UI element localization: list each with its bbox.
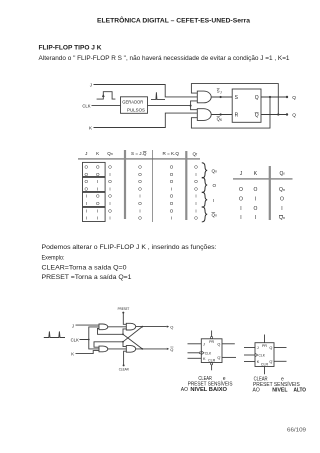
U3 pin CLR [208,358,216,370]
svg-text:I: I [240,206,241,212]
table T2 value cells [239,187,285,221]
pulse generator box U1 [121,97,148,114]
U3 pin J [188,343,206,347]
svg-text:Qn: Qn [279,187,285,193]
svg-text:Q: Q [217,343,220,347]
svg-text:Q: Q [255,113,259,119]
svg-text:I: I [213,198,214,203]
svg-text:Qf: Qf [280,171,285,177]
terminal Qbar [286,113,297,119]
svg-text:O: O [239,197,243,203]
svg-text:PRESET =Torna a saída Q=1: PRESET =Torna a saída Q=1 [42,274,133,281]
wire Q2 output [136,326,167,328]
svg-text:J: J [257,346,259,350]
svg-text:CLK: CLK [71,337,79,342]
svg-text:I: I [281,206,282,212]
wire feedback Q to G2 [191,97,270,128]
U3 pin PR [209,331,214,345]
junction rail Q [122,341,124,343]
svg-text:PR: PR [262,344,267,348]
svg-text:K: K [89,125,92,130]
svg-text:CLEAR=Torna a saída Q=0: CLEAR=Torna a saída Q=0 [42,265,128,272]
table T1 thick separator 1 [124,150,126,219]
svg-text:O: O [194,186,198,191]
svg-text:I: I [97,208,98,213]
table T1 JK group boxes [83,162,106,221]
svg-text:AONIVEL BAIXO: AONIVEL BAIXO [181,387,227,393]
svg-text:O: O [96,201,100,206]
svg-text:I: I [240,215,241,221]
flip-flop box U2 (RS latch) [232,89,261,122]
svg-text:CLK: CLK [82,103,90,108]
svg-text:O: O [138,186,142,191]
svg-text:Q: Q [292,113,296,119]
U4 pin Qbar [269,360,286,364]
wire feedback Qbar to G1 [191,84,278,115]
wire cross Qbar to upper rail [123,334,142,349]
nand-gate G5 (Q) [126,323,135,330]
paragraph block [42,244,217,281]
svg-text:Q: Q [292,95,296,101]
table T1 thin separator [152,150,154,222]
svg-text:J: J [72,323,74,328]
svg-text:O: O [239,187,243,193]
svg-text:O: O [170,172,174,177]
svg-text:O: O [253,206,257,212]
svg-text:O: O [108,165,112,170]
svg-text:CLR: CLR [208,358,216,362]
svg-text:J: J [220,90,222,94]
svg-text:I: I [195,194,196,199]
wire K2 [76,351,100,354]
svg-text:O: O [213,183,217,188]
wire G3 to G5 [108,326,127,328]
svg-text:Qn: Qn [212,169,218,174]
junction Q feedback tap [269,96,271,98]
table T1 header underline [78,158,200,160]
wire Q output [261,96,287,98]
svg-text:FLIP-FLOP TIPO J K: FLIP-FLOP TIPO J K [39,45,102,52]
svg-text:O: O [85,165,89,170]
svg-text:O: O [170,165,174,170]
svg-text:O: O [138,172,142,177]
svg-text:I: I [109,216,110,221]
svg-text:K: K [254,171,258,177]
nand-gate G6 (Qbar) [126,346,135,353]
svg-text:ELETRÔNICA DIGITAL – CEFET-E: ELETRÔNICA DIGITAL – CEFET-ES-UNED-Serra [97,17,251,25]
U4 pin CLR [261,362,269,374]
svg-text:Q: Q [269,360,272,364]
wire CLK to pulse generator [92,104,121,106]
svg-text:Q: Q [170,347,173,352]
svg-text:I: I [109,172,110,177]
svg-text:CLEAR: CLEAR [119,367,129,371]
svg-text:Qf: Qf [193,152,198,157]
svg-text:I: I [86,216,87,221]
svg-text:O: O [96,194,100,199]
svg-text:I: I [255,215,256,221]
svg-text:Podemos alterar o FLIP-FLOP J: Podemos alterar o FLIP-FLOP J K , inseri… [42,244,217,251]
junction CLK [190,105,192,107]
node CLEAR [119,364,129,371]
junction CLK2 [88,339,90,341]
U4 pin CLK [244,353,266,358]
svg-text:Qn: Qn [107,151,113,156]
svg-text:Q: Q [170,325,173,330]
svg-text:S = J.Q: S = J.Q [131,151,147,156]
svg-text:O: O [138,165,142,170]
wire rail Qbar feedback [98,329,127,335]
wire CLEAR [124,351,127,365]
svg-text:I: I [171,216,172,221]
svg-text:O: O [194,165,198,170]
svg-text:I: I [109,201,110,206]
wire PRESET [123,313,126,325]
svg-text:K: K [71,352,74,357]
wire Q2bar output [136,348,167,350]
svg-text:I: I [195,201,196,206]
svg-text:O: O [170,208,174,213]
svg-text:CLR: CLR [261,362,269,366]
node PRESET [118,307,130,313]
svg-text:Q: Q [255,95,259,101]
terminal Q [286,95,297,101]
svg-text:CLK: CLK [205,351,212,355]
wire G4 to G6 [108,348,127,350]
svg-text:O: O [253,187,257,193]
U4 pin Q [269,346,286,350]
svg-text:K: K [96,151,100,156]
svg-text:O: O [85,172,89,177]
svg-text:I: I [97,186,98,191]
svg-text:O: O [138,216,142,221]
U3 caption [181,376,233,393]
svg-text:O: O [280,197,284,203]
svg-text:O: O [170,179,174,184]
wire J2 [76,324,100,326]
svg-text:AONIVELALTO: AONIVELALTO [253,388,307,394]
U3 pin K [188,357,207,361]
svg-text:O: O [96,165,100,170]
U4 caption [253,376,307,393]
svg-text:O: O [108,179,112,184]
terminal Q2bar [167,347,174,352]
wire CLK to gates [148,101,198,110]
svg-text:I: I [171,186,172,191]
wide pulse waveform symbol [97,92,116,99]
svg-text:K: K [220,118,223,122]
svg-text:I: I [139,208,140,213]
svg-text:J: J [240,171,243,177]
wire J input [94,85,198,97]
svg-text:O: O [138,179,142,184]
narrow spike waveform symbol [151,92,165,99]
wire R [211,114,232,116]
and-gate G4 (K.ck.Q) [99,346,108,352]
junction S with label SJ [217,89,222,99]
svg-text:R: R [235,113,239,119]
junction R with label QK [217,113,223,122]
table T2 header row [240,171,285,177]
junction Qbar feedback tap [277,113,279,115]
svg-text:GERADOR: GERADOR [122,100,143,105]
U3 pin Q [217,343,234,347]
table T1 brace labels [212,169,218,218]
and-gate G2 (R = K.Qn.ck) [197,109,211,121]
svg-text:J: J [85,151,87,156]
svg-text:O: O [194,179,198,184]
svg-text:I: I [255,197,256,203]
svg-text:I: I [86,194,87,199]
ff-symbol U3 box [201,339,222,363]
svg-text:Exemplo:: Exemplo: [42,254,65,261]
table T1 header row [85,151,197,157]
svg-text:CLK: CLK [259,354,266,358]
svg-text:I: I [86,208,87,213]
junction Q2 [141,326,143,328]
U3 pin Qbar [217,356,236,360]
U4 pin PR [262,335,267,349]
svg-text:I: I [195,172,196,177]
wire Qbar output [261,114,287,116]
table T1 value cells [85,165,199,221]
svg-text:J: J [90,82,92,87]
table T2 header underline [233,178,293,180]
svg-text:66/109: 66/109 [287,428,306,434]
table T1 thick separator 2 [185,151,187,220]
and-gate G3 (J.ck.Qbar) [99,324,108,330]
svg-text:Qn: Qn [212,213,218,218]
svg-text:O: O [85,179,89,184]
svg-text:O: O [96,172,100,177]
terminal Q2 [167,325,174,330]
svg-text:I: I [97,216,98,221]
clock waveform (two spikes) [44,331,65,337]
U4 pin J [244,346,259,350]
svg-text:O: O [194,216,198,221]
table T1 braces [202,163,207,222]
wire CLK2 with branches [80,327,100,349]
wire cross Q to lower rail [123,327,142,342]
svg-text:O: O [138,201,142,206]
svg-text:O: O [170,201,174,206]
svg-text:O: O [170,194,174,199]
U4 pin K [244,360,260,364]
svg-text:O: O [108,208,112,213]
svg-text:PR: PR [209,340,214,344]
junction Q2bar [141,348,143,350]
svg-text:PULSOS: PULSOS [127,108,145,113]
svg-text:Q: Q [217,356,220,360]
svg-text:I: I [97,179,98,184]
table T2 thick separator [269,166,271,220]
junction rail Qbar [122,333,124,335]
svg-text:O: O [108,194,112,199]
svg-text:I: I [109,186,110,191]
svg-text:PRESET: PRESET [118,307,130,311]
svg-text:Q: Q [269,346,272,350]
U3 pin CLK [188,351,213,356]
svg-text:R = K.Q: R = K.Q [163,151,180,156]
svg-text:J: J [203,343,205,347]
and-gate G1 (S = J.Qn.ck) [197,91,211,103]
wire rail Q feedback [94,342,126,347]
wire S [211,96,232,98]
svg-text:I: I [86,201,87,206]
svg-text:I: I [139,194,140,199]
ff-symbol U4 box [255,343,274,367]
wire K input [94,113,198,127]
svg-text:Alterando o " FLIP-FLOP R S ",: Alterando o " FLIP-FLOP R S ", não haver… [39,56,291,62]
svg-text:I: I [195,208,196,213]
svg-text:Qn: Qn [279,215,285,221]
svg-text:O: O [85,186,89,191]
